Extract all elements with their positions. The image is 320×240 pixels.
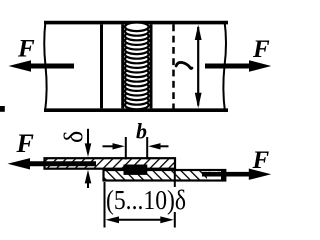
svg-text:(5...10)δ: (5...10)δ bbox=[106, 185, 186, 215]
overlap extension line right lower bbox=[174, 212, 176, 228]
plate bottom edge bbox=[44, 108, 228, 112]
force arrow top-right bbox=[205, 64, 250, 69]
b dimension arrow right (pointing left) bbox=[157, 145, 169, 147]
force arrow bottom-left bbox=[27, 161, 96, 166]
svg-text:F: F bbox=[252, 147, 270, 174]
svg-text:F: F bbox=[17, 36, 35, 63]
left break (wavy) edge bbox=[44, 21, 46, 112]
b extension line right bbox=[146, 137, 148, 160]
overlap dimension double arrow bbox=[112, 219, 167, 221]
delta arrow top (pointing down) bbox=[87, 129, 89, 152]
svg-text:δ: δ bbox=[59, 131, 88, 143]
right break (wavy) edge bbox=[223, 21, 226, 112]
plate edge line (solid) bbox=[100, 24, 103, 108]
weld seam coil bbox=[125, 23, 149, 110]
weld zone right boundary bbox=[150, 24, 153, 108]
force arrow bottom-right bbox=[202, 172, 250, 177]
svg-text:b: b bbox=[136, 119, 147, 144]
overlap extension line right upper bbox=[174, 170, 176, 187]
dimension l arrowhead bottom bbox=[195, 93, 202, 108]
weld nugget bbox=[124, 165, 148, 175]
b dimension arrow left (pointing right) bbox=[103, 145, 117, 147]
dimension l arrowhead top bbox=[195, 25, 202, 40]
svg-text:F: F bbox=[252, 36, 270, 63]
lower plate blank right end bbox=[207, 171, 224, 179]
delta arrow bottom (pointing up) bbox=[87, 176, 89, 188]
upper plate section bbox=[45, 158, 176, 169]
edge artifact bbox=[0, 106, 5, 112]
lower plate section bbox=[104, 170, 226, 181]
overlap extension line left bbox=[104, 182, 106, 228]
b extension line left bbox=[125, 137, 127, 160]
plate top edge bbox=[44, 21, 228, 25]
force arrow top-left bbox=[28, 64, 74, 69]
lower plate end cap bbox=[221, 170, 225, 181]
label l (slanted script) bbox=[176, 62, 192, 68]
dimension l line bbox=[197, 27, 199, 106]
weld zone left boundary bbox=[121, 24, 124, 108]
hidden edge dashed line bbox=[172, 24, 175, 109]
svg-text:F: F bbox=[16, 129, 34, 158]
